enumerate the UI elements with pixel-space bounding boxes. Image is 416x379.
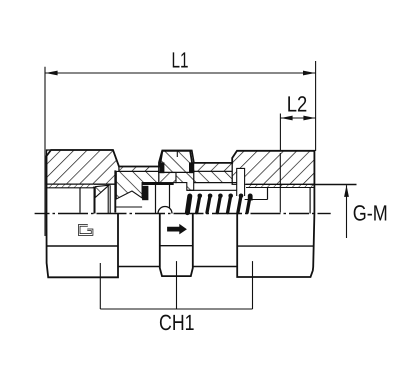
male end tip wedge [95, 185, 109, 197]
spring seat step [267, 188, 269, 200]
poppet seal (black) [142, 186, 148, 200]
poppet ball semicircle [158, 207, 172, 214]
left nut hatched section [47, 150, 120, 184]
spring stop seal [248, 195, 253, 200]
slot in right nut [237, 168, 245, 196]
center hex cap [159, 150, 194, 172]
svg-text:CH1: CH1 [159, 310, 195, 335]
cap joint stub [176, 151, 178, 157]
right nut hatched section [232, 151, 314, 185]
cap lower right [176, 173, 194, 191]
left hex lower [47, 214, 119, 278]
poppet top plate (thick) [142, 183, 174, 185]
right hex lower [237, 214, 314, 278]
left port thread band [47, 184, 94, 188]
svg-text:L1: L1 [172, 48, 189, 73]
seal right of center hex [189, 162, 194, 173]
seal left of center hex [160, 162, 165, 173]
left port bore [47, 188, 94, 214]
spring chamber top line [187, 189, 237, 191]
poppet stem lines [155, 185, 157, 214]
sleeve right lower [193, 266, 237, 268]
svg-text:G-M: G-M [353, 201, 388, 226]
right inner sleeve band [194, 171, 237, 182]
left sleeve hatched band [119, 167, 160, 172]
poppet chamber white [148, 185, 267, 214]
right port thread band [246, 184, 314, 187]
chamber step line [194, 182, 237, 184]
male end bore wall [94, 187, 96, 214]
left thread-engagement block [116, 171, 159, 199]
svg-text:L2: L2 [287, 92, 308, 117]
center hex lower [160, 214, 193, 277]
cap lower left [159, 173, 176, 183]
right outer sleeve band [194, 163, 237, 172]
sleeve left lower [118, 266, 160, 268]
